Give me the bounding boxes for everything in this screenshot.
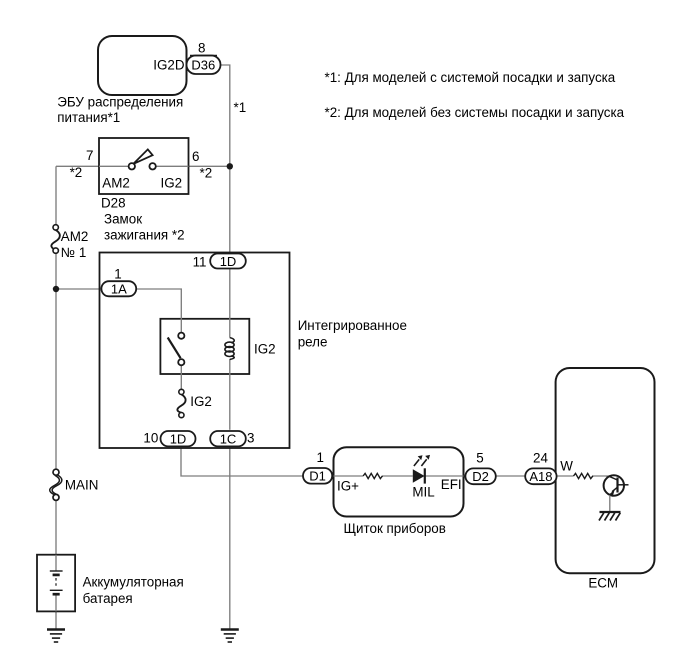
svg-text:*1: *1	[234, 100, 247, 115]
svg-text:*2: *2	[200, 166, 213, 181]
svg-text:D36: D36	[191, 58, 215, 73]
svg-text:5: 5	[476, 451, 483, 466]
svg-text:зажигания *2: зажигания *2	[104, 228, 185, 243]
svg-text:6: 6	[192, 149, 199, 164]
svg-text:*2: Для моделей без системы по: *2: Для моделей без системы посадки и за…	[325, 105, 625, 120]
svg-text:24: 24	[533, 451, 548, 466]
svg-text:Замок: Замок	[104, 211, 142, 226]
svg-text:*2: *2	[70, 165, 83, 180]
svg-text:IG2: IG2	[190, 394, 212, 409]
svg-text:7: 7	[86, 148, 93, 163]
svg-text:питания*1: питания*1	[57, 110, 120, 125]
svg-text:ECM: ECM	[588, 576, 618, 591]
svg-text:№ 1: № 1	[61, 245, 87, 260]
svg-text:IG2: IG2	[254, 341, 276, 356]
svg-text:батарея: батарея	[83, 591, 133, 606]
svg-text:1: 1	[114, 266, 121, 281]
svg-text:1C: 1C	[220, 431, 237, 446]
svg-text:EFI: EFI	[441, 477, 462, 492]
svg-text:1A: 1A	[111, 282, 127, 297]
svg-text:1: 1	[317, 450, 324, 465]
svg-text:3: 3	[247, 430, 254, 445]
svg-text:D28: D28	[101, 196, 126, 211]
svg-text:Интегрированное: Интегрированное	[298, 318, 407, 333]
svg-text:IG2: IG2	[161, 176, 183, 191]
svg-text:AM2: AM2	[61, 229, 89, 244]
svg-text:A18: A18	[529, 469, 552, 484]
svg-text:10: 10	[143, 430, 158, 445]
svg-text:IG2D: IG2D	[153, 58, 185, 73]
svg-text:*1: Для моделей с системой пос: *1: Для моделей с системой посадки и зап…	[325, 70, 616, 85]
svg-text:D1: D1	[309, 469, 326, 484]
svg-text:D2: D2	[472, 469, 489, 484]
svg-text:IG+: IG+	[337, 478, 359, 493]
svg-text:11: 11	[193, 254, 207, 269]
svg-text:1D: 1D	[220, 254, 237, 269]
svg-text:1D: 1D	[170, 431, 187, 446]
svg-text:8: 8	[198, 40, 205, 55]
svg-text:ЭБУ распределения: ЭБУ распределения	[57, 95, 183, 110]
svg-text:реле: реле	[298, 334, 328, 349]
svg-text:Аккумуляторная: Аккумуляторная	[83, 574, 184, 589]
svg-text:MIL: MIL	[412, 485, 434, 500]
svg-text:W: W	[560, 458, 573, 473]
svg-text:AM2: AM2	[102, 176, 130, 191]
svg-text:Щиток приборов: Щиток приборов	[344, 521, 446, 536]
svg-text:MAIN: MAIN	[65, 478, 98, 493]
